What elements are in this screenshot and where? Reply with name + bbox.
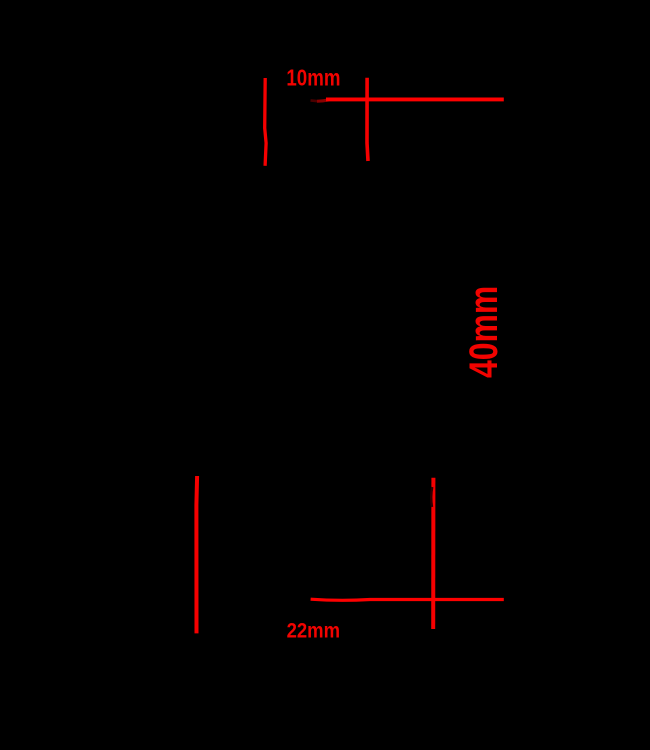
svg-text:22mm: 22mm bbox=[287, 619, 340, 643]
svg-text:10mm: 10mm bbox=[286, 66, 340, 91]
svg-text:40mm: 40mm bbox=[461, 286, 506, 378]
